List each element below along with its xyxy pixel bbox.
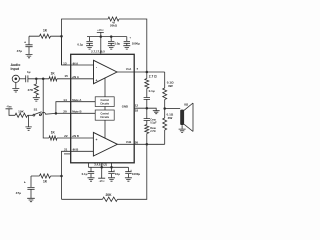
- svg-text:0.1μ: 0.1μ: [82, 172, 88, 176]
- node GND junction: [146, 107, 149, 110]
- svg-text:-IN A: -IN A: [72, 62, 78, 66]
- ground below 1000u Vcc: [123, 46, 130, 49]
- node Vcc 1u branch: [110, 35, 113, 38]
- svg-text:+: +: [24, 40, 26, 44]
- pin 14: [63, 98, 67, 102]
- node speaker junction: [163, 107, 166, 110]
- wire amp A output to pin 7: [117, 71, 134, 73]
- svg-text:Circuits: Circuits: [100, 116, 110, 119]
- ground below jack: [12, 89, 19, 92]
- node feedback B: [60, 175, 63, 178]
- node feedback A: [60, 35, 63, 38]
- svg-text:0.1μF: 0.1μF: [150, 121, 157, 124]
- svg-text:15: 15: [64, 74, 68, 78]
- wire Vcc rail to IC top pins: [100, 37, 102, 55]
- svg-text:2.7 Ω: 2.7 Ω: [149, 74, 157, 78]
- capacitor 0.1u Vee: [82, 167, 95, 177]
- svg-text:22: 22: [64, 134, 68, 138]
- wire VoB output row: [134, 143, 165, 145]
- wire input tap down to 1K-B: [43, 79, 49, 138]
- capacitor 1.0u Vcc: [108, 37, 120, 46]
- label Mute B: [72, 110, 81, 114]
- node input bias: [35, 78, 38, 81]
- svg-text:Mute B: Mute B: [72, 110, 81, 114]
- wire pin 14 inside stub: [71, 101, 96, 103]
- capacitor 10u Vee: [108, 167, 120, 177]
- wire Vcc rail: [87, 36, 127, 38]
- wire 10K to S1: [28, 114, 34, 116]
- svg-text:VOA: VOA: [126, 67, 131, 71]
- resistor 1K feedback A: [40, 28, 51, 38]
- wire jack to cap: [19, 78, 25, 80]
- op-amp B triangle: [93, 132, 117, 156]
- wire VoA output row: [134, 71, 165, 73]
- wire pin 20 inside stub: [71, 112, 96, 114]
- svg-text:1000μ: 1000μ: [132, 172, 140, 176]
- label Mute A: [72, 98, 81, 102]
- power terminal -Vcc: [98, 167, 105, 183]
- node VoB junction: [146, 143, 149, 146]
- label -IN B: [72, 147, 78, 151]
- node Vee 10u branch: [110, 166, 113, 169]
- power terminal -Vee: [6, 104, 16, 115]
- ground at GND pins: [153, 111, 160, 114]
- label GND: [122, 104, 128, 108]
- svg-text:47K: 47K: [28, 88, 34, 92]
- svg-text:8Ω: 8Ω: [184, 102, 189, 106]
- control circuits box A: [95, 97, 114, 107]
- resistor 10K mute: [15, 109, 28, 117]
- label bottom supply pin numbers: [94, 163, 107, 167]
- speaker 8 ohm: [180, 102, 193, 131]
- ground below 0.1u Vcc: [86, 46, 93, 49]
- connector audio input jack: [12, 75, 19, 88]
- ground below 47K: [33, 98, 40, 101]
- ground below 47u A: [26, 54, 33, 57]
- svg-text:-IN B: -IN B: [72, 147, 78, 151]
- wire to speaker: [165, 108, 181, 110]
- svg-text:47μ: 47μ: [16, 191, 21, 195]
- capacitor 0.1u Vcc: [77, 37, 92, 47]
- ground below 47u B: [27, 198, 35, 201]
- svg-text:0.1μ: 0.1μ: [149, 89, 155, 93]
- svg-text:S1: S1: [34, 107, 38, 111]
- resistor 47K input bias: [28, 79, 39, 98]
- switch S1: [33, 107, 42, 116]
- ground stub at S1: [25, 115, 31, 130]
- wire amp B output to pin 26: [117, 143, 134, 145]
- svg-text:1K: 1K: [43, 28, 48, 32]
- pin 22: [64, 134, 68, 138]
- label top supply pin numbers: [91, 50, 105, 54]
- svg-text:10K: 10K: [18, 109, 24, 113]
- svg-text:0.1μ: 0.1μ: [77, 42, 83, 46]
- wire Vee rail: [89, 163, 129, 168]
- resistor 20K feedback A: [108, 17, 119, 28]
- capacitor Csnb 0.1uF: [144, 108, 157, 124]
- svg-text:+VCC: +VCC: [97, 28, 104, 32]
- svg-text:3W: 3W: [168, 84, 173, 88]
- wire 47uB 1K to node: [31, 175, 62, 177]
- svg-text:+IN B: +IN B: [72, 134, 79, 138]
- capacitor 1u input coupling: [26, 70, 31, 82]
- control circuits box B: [95, 110, 114, 120]
- capacitor 1000u Vee: [125, 167, 140, 177]
- svg-text:-VCC: -VCC: [99, 179, 105, 183]
- svg-text:3,4,9,|0,2|: 3,4,9,|0,2|: [94, 163, 107, 167]
- wire 1K-A to amp A noninverting input: [57, 78, 94, 80]
- svg-text:20kΩ: 20kΩ: [110, 24, 118, 28]
- label Audio Input: [11, 63, 21, 71]
- label +IN A: [72, 75, 79, 79]
- pin 21: [64, 147, 68, 151]
- svg-text:+: +: [24, 181, 26, 185]
- pin 20: [63, 110, 67, 114]
- wire mute node to pin 14: [56, 102, 71, 114]
- wire node to amp A inverting input: [62, 36, 94, 65]
- wire 1K-B to amp B noninverting input: [57, 137, 93, 139]
- svg-text:47μ: 47μ: [17, 49, 22, 53]
- pin 18: [135, 109, 139, 113]
- svg-text:1K: 1K: [43, 180, 48, 184]
- resistor 1K input B: [49, 131, 57, 141]
- svg-text:Input: Input: [11, 67, 20, 71]
- svg-text:+: +: [96, 138, 98, 142]
- wire amp A to control box A: [104, 78, 106, 97]
- label VoB: [126, 140, 131, 144]
- node Vcc IC feed: [100, 35, 103, 38]
- svg-text:21: 21: [64, 147, 68, 151]
- svg-text:VOB: VOB: [126, 140, 131, 144]
- wire box A to box B: [104, 107, 106, 111]
- svg-text:Circuits: Circuits: [100, 102, 110, 105]
- pin 15: [64, 74, 68, 78]
- capacitor 47u feedback B: [16, 176, 35, 198]
- svg-text:1K: 1K: [51, 131, 56, 135]
- pin 7: [136, 67, 138, 71]
- resistor Rsnb 2.7ohm: [145, 125, 157, 145]
- svg-text:3W: 3W: [168, 116, 173, 120]
- pin 13: [63, 62, 67, 66]
- svg-text:20: 20: [63, 110, 67, 114]
- power terminal +Vcc: [97, 28, 105, 36]
- capacitor 0.1u zobel A: [144, 89, 155, 109]
- svg-text:13: 13: [63, 62, 67, 66]
- svg-text:+IN A: +IN A: [72, 75, 79, 79]
- ground below 10u Vee: [108, 178, 115, 181]
- wire GND pins row: [134, 108, 156, 110]
- svg-text:1000μ: 1000μ: [132, 42, 140, 46]
- capacitor 1000u Vcc: [124, 36, 141, 46]
- wire amp B inverting input to corner: [62, 151, 94, 199]
- svg-text:+: +: [129, 36, 131, 40]
- pin 12: [135, 104, 139, 108]
- svg-text:1μ: 1μ: [27, 70, 31, 74]
- svg-text:10μ: 10μ: [115, 172, 120, 176]
- IC U1 body: [71, 54, 135, 163]
- resistor 0.1ohm 3W ballast A: [163, 72, 174, 109]
- label VoA: [126, 67, 131, 71]
- wire mute node to pin 20: [56, 112, 71, 114]
- node VoA junction: [146, 71, 149, 74]
- resistor 0.1ohm 3W ballast B: [163, 109, 174, 145]
- ground below speaker: [179, 125, 186, 132]
- resistor 1K feedback B: [40, 174, 51, 184]
- wire box B to amp B: [104, 120, 106, 138]
- ground below 1000u Vee: [125, 178, 132, 181]
- label +IN B: [72, 134, 79, 138]
- node mute: [55, 112, 58, 115]
- resistor 2.7ohm zobel A: [145, 72, 157, 89]
- node input B tap: [42, 78, 45, 81]
- pin 26: [135, 140, 139, 144]
- resistor 20K feedback B: [103, 193, 118, 202]
- svg-text:20K: 20K: [105, 193, 112, 197]
- wire 47uA to 1K to node: [29, 35, 62, 37]
- wire feedback A top rail: [62, 19, 147, 72]
- svg-text:12: 12: [135, 104, 139, 108]
- wire cap to 1K input A: [28, 78, 49, 80]
- wire pin 21 stub: [64, 153, 71, 155]
- svg-text:+: +: [96, 78, 98, 82]
- svg-text:1K: 1K: [51, 71, 56, 75]
- wire S1 to mute node with crossover hop: [41, 112, 56, 114]
- wire bottom feedback loop: [62, 144, 147, 199]
- svg-text:2.7Ω: 2.7Ω: [150, 130, 155, 133]
- svg-text:14: 14: [63, 98, 67, 102]
- svg-text:7: 7: [136, 67, 138, 71]
- ground below 0.1u Vee: [88, 178, 95, 181]
- svg-text:1.0μ: 1.0μ: [114, 42, 120, 46]
- svg-text:18: 18: [135, 109, 139, 113]
- ground below 1.0u Vcc: [108, 46, 115, 49]
- svg-text:2,7,17,|9,5: 2,7,17,|9,5: [91, 50, 105, 54]
- node Vee feed: [100, 166, 103, 169]
- resistor 1K input A: [49, 71, 57, 81]
- capacitor 47u feedback A: [17, 36, 33, 54]
- svg-text:-VEE: -VEE: [6, 104, 12, 108]
- svg-text:26: 26: [135, 140, 139, 144]
- svg-text:-: -: [96, 65, 98, 69]
- svg-text:GND: GND: [122, 104, 128, 108]
- label -IN A: [72, 62, 78, 66]
- op-amp A triangle: [94, 60, 118, 83]
